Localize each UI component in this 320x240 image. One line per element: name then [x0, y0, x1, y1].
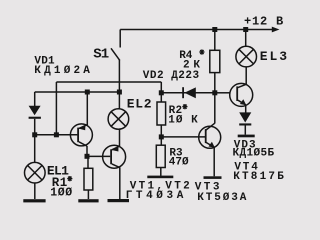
- svg-text:EL2: EL2: [127, 96, 153, 111]
- svg-text:EL3: EL3: [260, 49, 289, 64]
- wire bus A: [56, 81, 161, 83]
- diode VD1: [34, 92, 36, 106]
- svg-text:VD2 Д223: VD2 Д223: [143, 70, 200, 82]
- svg-text:КД1Ø5Б: КД1Ø5Б: [233, 148, 275, 160]
- svg-text:КТ817Б: КТ817Б: [233, 171, 286, 183]
- svg-text:S1: S1: [93, 47, 108, 63]
- node R2 / R3 / VT3 base: [159, 134, 164, 139]
- node top bus / EL3: [243, 27, 248, 32]
- resistor R3: [156, 145, 165, 167]
- wire bus B: [35, 91, 120, 93]
- wire VT2 base: [87, 155, 110, 157]
- node bus B / VT1 emitter: [85, 90, 90, 95]
- wire VT1 emitter riser: [86, 92, 88, 125]
- lamp EL2: [108, 109, 129, 130]
- node VD1 / EL1: [32, 132, 37, 137]
- lamp EL1: [34, 135, 36, 163]
- node R4 / VD2 / VT3 / VT4: [212, 90, 217, 95]
- wire switch to EL2: [118, 60, 120, 110]
- diode VD3: [239, 112, 251, 122]
- ground R1: [78, 199, 98, 202]
- transistor VT1: [70, 124, 92, 146]
- svg-text:1Ø К: 1Ø К: [168, 114, 198, 126]
- wire VD2 line: [161, 92, 215, 94]
- node bus B / switch: [117, 90, 122, 95]
- svg-text:КД1Ø2А: КД1Ø2А: [34, 65, 93, 77]
- svg-text:47Ø: 47Ø: [169, 157, 189, 169]
- label R1 asterisk: [67, 176, 72, 181]
- wire top bus +12V: [120, 29, 273, 31]
- transistor VT3: [199, 126, 221, 148]
- wire bus A riser: [55, 82, 57, 135]
- resistor R4: [214, 30, 216, 51]
- wire bus A to R2: [160, 82, 162, 102]
- svg-text:1ØØ: 1ØØ: [50, 187, 73, 200]
- svg-text:2 К: 2 К: [183, 60, 200, 72]
- svg-text:+12 В: +12 В: [244, 15, 284, 29]
- node supply arrow: [272, 27, 280, 33]
- ground EL1: [23, 199, 45, 202]
- svg-text:КТ5Ø3А: КТ5Ø3А: [197, 192, 248, 204]
- wire node line y135: [35, 134, 78, 136]
- resistor R1: [87, 156, 89, 168]
- svg-text:ГТ4Ø3А: ГТ4Ø3А: [126, 190, 187, 202]
- transistor VT2: [103, 145, 126, 168]
- ground VT3: [204, 176, 222, 179]
- label R4 asterisk: [199, 49, 204, 54]
- wire VT4 base: [215, 92, 230, 94]
- transistor VT4: [230, 83, 253, 106]
- node bus A riser: [54, 132, 59, 137]
- resistor R2: [157, 102, 166, 125]
- node top bus / R4: [212, 27, 217, 32]
- label R2 asterisk: [182, 104, 187, 109]
- ground VT2: [108, 199, 130, 202]
- switch S1 blade: [111, 48, 120, 60]
- wire R2 to VT3 base: [161, 136, 205, 138]
- node R2 top: [159, 90, 164, 95]
- ground R3: [147, 176, 173, 179]
- node VT1 collector / R1 / VT2 base: [85, 154, 90, 159]
- diode VD2: [182, 87, 184, 98]
- ground VD3: [238, 135, 255, 138]
- wire switch feed: [119, 30, 121, 48]
- lamp EL3: [245, 30, 247, 47]
